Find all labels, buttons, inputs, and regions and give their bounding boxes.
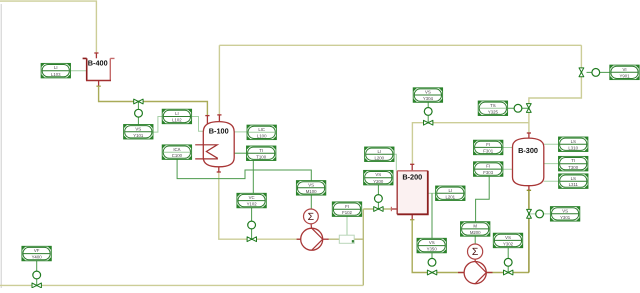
svg-text:L103: L103 — [51, 72, 61, 77]
svg-text:LI: LI — [449, 188, 453, 193]
svg-text:C100: C100 — [172, 153, 183, 158]
svg-text:TI: TI — [259, 148, 263, 153]
svg-text:LI: LI — [175, 111, 179, 116]
svg-text:L201: L201 — [446, 194, 456, 199]
svg-text:Y350: Y350 — [427, 247, 438, 252]
svg-text:VF: VF — [34, 248, 40, 253]
svg-text:L311: L311 — [569, 182, 579, 187]
svg-text:B-200: B-200 — [402, 173, 422, 182]
svg-text:VS: VS — [308, 182, 314, 187]
svg-text:L200: L200 — [375, 155, 385, 160]
svg-text:VS: VS — [425, 90, 431, 95]
svg-text:B-100: B-100 — [209, 127, 229, 136]
svg-text:VC: VC — [249, 195, 255, 200]
svg-text:Y102: Y102 — [247, 202, 258, 207]
svg-text:Y400: Y400 — [32, 255, 43, 260]
svg-text:LIC: LIC — [258, 127, 265, 132]
svg-text:VS: VS — [562, 208, 568, 213]
svg-text:TI: TI — [571, 158, 575, 163]
svg-text:VS: VS — [135, 126, 141, 131]
svg-text:B-300: B-300 — [518, 146, 538, 155]
svg-text:Y901: Y901 — [619, 73, 630, 78]
svg-text:T100: T100 — [256, 154, 266, 159]
svg-text:F303: F303 — [483, 170, 493, 175]
svg-text:VS: VS — [429, 240, 435, 245]
svg-text:Y325: Y325 — [488, 109, 499, 114]
svg-text:L310: L310 — [568, 145, 578, 150]
svg-text:LI: LI — [378, 149, 382, 154]
svg-text:VS: VS — [505, 235, 511, 240]
svg-text:LS: LS — [571, 139, 576, 144]
svg-text:Y200: Y200 — [373, 179, 384, 184]
svg-text:ICA: ICA — [173, 147, 180, 152]
svg-text:L102: L102 — [172, 118, 182, 123]
svg-text:LI: LI — [54, 65, 58, 70]
svg-text:Y301: Y301 — [560, 215, 571, 220]
svg-text:FI: FI — [345, 204, 349, 209]
svg-text:Σ: Σ — [472, 247, 479, 258]
svg-text:LS: LS — [571, 176, 576, 181]
svg-text:FI: FI — [486, 164, 490, 169]
svg-text:Y304: Y304 — [423, 96, 434, 101]
svg-text:L100: L100 — [257, 133, 267, 138]
svg-text:Σ: Σ — [308, 212, 315, 223]
svg-text:T300: T300 — [568, 165, 578, 170]
svg-text:M100: M100 — [306, 189, 317, 194]
svg-text:Y101: Y101 — [133, 133, 144, 138]
svg-text:Y302: Y302 — [503, 242, 514, 247]
svg-text:M200: M200 — [470, 230, 481, 235]
svg-text:VI: VI — [622, 67, 626, 72]
svg-text:F301: F301 — [483, 149, 493, 154]
svg-text:TS: TS — [490, 103, 496, 108]
svg-text:M: M — [473, 224, 477, 229]
svg-text:B-400: B-400 — [88, 59, 108, 68]
svg-text:F102: F102 — [342, 210, 352, 215]
svg-text:FI: FI — [486, 142, 490, 147]
svg-text:VS: VS — [375, 172, 381, 177]
